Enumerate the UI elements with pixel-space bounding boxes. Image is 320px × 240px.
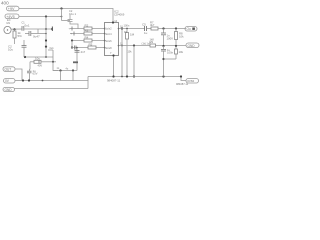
O3 wire (15, 69, 22, 81)
drops to ground link (60, 71, 62, 81)
junction on W2 at x61.5 (61, 16, 63, 18)
terminal oval O5 (3, 88, 15, 92)
IC2 box (105, 23, 119, 56)
cap C4 vertical at x29.5 (27, 71, 32, 73)
faint text under rail (107, 79, 121, 83)
capacitor C2a vertical at x70 (69, 15, 71, 20)
svg-text:1M: 1M (130, 33, 135, 37)
mid rail y76.5 right segment (88, 76, 133, 78)
O4 wire (15, 80, 24, 82)
junction on W1 (60, 7, 62, 9)
vertical x77 from rail D area down to y70.5 wire (76, 50, 78, 71)
faint tiny labels near y68 (57, 67, 69, 71)
svg-text:10k: 10k (179, 50, 184, 54)
right pin wire top y28.5 (119, 28, 145, 30)
resistor R4 on rail C (84, 39, 92, 42)
svg-text:100n: 100n (167, 51, 174, 55)
svg-text:1o/s2: 1o/s2 (105, 27, 112, 31)
terminal oval O8 (186, 79, 199, 84)
capacitor C2a label (69, 9, 76, 16)
wire vertical x46 from W2 down to y57 (45, 17, 47, 58)
page number 400 (1, 1, 9, 6)
electrolytic cap E1 horizontal (30, 61, 34, 63)
svg-text:0u1: 0u1 (25, 24, 30, 28)
cap C7 below (163, 46, 165, 49)
wire W1 top supply rail (19, 9, 113, 23)
IC2 top pin junction (112, 21, 114, 23)
svg-text:R3: R3 (85, 29, 89, 33)
svg-text:400: 400 (1, 1, 9, 6)
capacitor C2 vertical (23, 40, 25, 46)
pin number texts right of IC (120, 26, 151, 46)
terminal oval O2 (5, 14, 19, 19)
terminal oval O7 (186, 43, 199, 48)
resistor R1 vertical (14, 29, 16, 31)
svg-text:4n7: 4n7 (81, 50, 86, 54)
small dark component dash (73, 61, 78, 63)
svg-text:40V: 40V (38, 64, 43, 68)
cap C6 vertical (163, 29, 165, 34)
vertical x53 (53, 50, 58, 71)
series cap C5 on top wire (145, 26, 147, 31)
svg-text:+9V: +9V (8, 7, 15, 11)
resistor R3 on rail B (84, 32, 92, 35)
svg-text:984087-11: 984087-11 (107, 79, 121, 83)
svg-text:63V: 63V (33, 72, 38, 76)
IC2 pin texts (105, 19, 117, 55)
mic designator texts (7, 18, 26, 25)
rail A right part into IC (70, 28, 105, 30)
ground link rail y80.5 (24, 81, 88, 89)
E1 left lead down (29, 62, 32, 69)
x133 vertical to rail jog (133, 46, 135, 77)
resistor R6 vertical (126, 29, 128, 33)
label 0u47 (33, 34, 40, 38)
svg-text:100n: 100n (124, 23, 130, 27)
component below R8 (175, 46, 177, 49)
svg-text:OUT: OUT (5, 68, 12, 72)
vertical x38 from rail A down to rail B (37, 29, 39, 34)
svg-text:984087-11: 984087-11 (176, 82, 189, 86)
resistor R2 on rail A (84, 27, 92, 30)
cap on rail A at x52 (51, 27, 53, 32)
terminal oval O6 out top (185, 27, 197, 32)
svg-text:GND: GND (188, 44, 196, 48)
capacitor C2b series on rail B (25, 33, 29, 35)
faint label 0u1 near x53 (50, 47, 55, 50)
resistor R7 series (151, 27, 158, 30)
C2 label (8, 44, 13, 51)
svg-text:C5: C5 (142, 22, 146, 26)
rail B right part into IC (70, 33, 105, 35)
resistor R9 series on y45.5 wire (150, 44, 156, 47)
svg-text:1k8: 1k8 (150, 38, 155, 42)
svg-text:+: + (71, 32, 73, 36)
terminal oval O1 (+9V top left) (7, 6, 20, 11)
right pin wire y45.5 (119, 45, 187, 47)
svg-text:10k: 10k (179, 34, 184, 38)
terminal oval O4 (4, 79, 16, 84)
wire y70.5 (53, 70, 77, 72)
IC pin entry dots (104, 28, 120, 49)
svg-text:5o/s6: 5o/s6 (105, 39, 112, 43)
junction on W2 at x46 (45, 15, 47, 17)
wire y57 (24, 56, 53, 58)
rail y76.5 to x181 then down to O8 (133, 77, 186, 81)
svg-text:Ou: Ou (187, 27, 191, 31)
svg-text:GND: GND (5, 88, 13, 92)
svg-text:0u47: 0u47 (33, 34, 40, 38)
svg-text:100V: 100V (167, 36, 174, 40)
svg-text:3o/c4: 3o/c4 (105, 32, 112, 36)
wire after C1 / rail A left (24, 28, 52, 30)
svg-text:0u1: 0u1 (50, 47, 55, 50)
terminal oval O3 (3, 67, 15, 72)
wire from source (11, 28, 22, 30)
svg-text:R4: R4 (85, 36, 89, 40)
IC2 label (114, 10, 125, 17)
C1 label (25, 24, 30, 28)
svg-text:+: + (69, 27, 71, 31)
svg-text:M1: M1 (7, 21, 11, 25)
bottom rail y88.5 (15, 88, 89, 90)
svg-text:9o/s8: 9o/s8 (105, 46, 112, 50)
svg-text:10u: 10u (35, 56, 40, 60)
rail D into IC (71, 47, 105, 49)
resistor R5 on rail D (88, 46, 96, 49)
capacitor C1 series (22, 26, 24, 31)
R1 label (18, 31, 23, 38)
svg-text:10u: 10u (8, 47, 13, 51)
svg-text:R5: R5 (89, 42, 93, 46)
input source circle MIC (4, 26, 11, 33)
x122 vertical (121, 29, 123, 77)
svg-text:5%: 5% (18, 34, 23, 38)
wire y50 stub (48, 49, 53, 51)
wire W2 (19, 16, 62, 18)
svg-text:4k7: 4k7 (150, 23, 155, 27)
svg-text:CD4069: CD4069 (114, 13, 125, 17)
svg-text:1u: 1u (144, 31, 148, 35)
junctions on y45.5 wire right (162, 45, 164, 47)
svg-text:0V84: 0V84 (187, 79, 194, 83)
junction at source (13, 28, 15, 30)
vertical from W1 junction down past W2 (61, 9, 63, 21)
IC2 bottom pin to rail (113, 56, 115, 77)
resistor R8 vertical (175, 29, 177, 32)
svg-text:R2: R2 (85, 23, 89, 27)
junctions on x46 vertical (45, 28, 47, 30)
rail C into IC (72, 40, 105, 42)
